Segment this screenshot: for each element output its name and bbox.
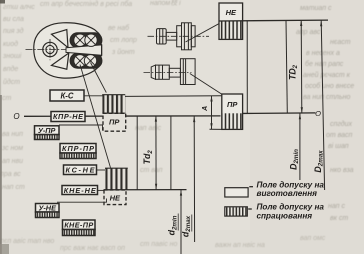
svg-text:У-ПР: У-ПР bbox=[38, 126, 56, 135]
svg-text:О: О bbox=[315, 109, 321, 118]
svg-text:нап ст: нап ст bbox=[2, 184, 25, 191]
svg-text:ст лопр: ст лопр bbox=[110, 37, 137, 44]
svg-text:нєаст: нєаст bbox=[330, 39, 351, 46]
svg-text:прс важ нає васп оп: прс важ нає васп оп bbox=[60, 245, 125, 252]
svg-text:виготовлення: виготовлення bbox=[257, 189, 318, 198]
svg-text:апр авс: апр авс bbox=[296, 29, 321, 36]
svg-text:ст: ст bbox=[2, 95, 12, 102]
svg-text:КПР-НЕ: КПР-НЕ bbox=[53, 112, 84, 121]
svg-text:впде: впде bbox=[3, 65, 18, 73]
svg-text:ст апр бечестінд в ресі пба: ст апр бечестінд в ресі пба bbox=[40, 0, 132, 8]
svg-text:спрацювання: спрацювання bbox=[257, 212, 313, 221]
svg-text:зс ном: зс ном bbox=[1, 145, 23, 152]
svg-text:пєп авіс тап нво: пєп авіс тап нво bbox=[0, 237, 54, 245]
svg-text:ап нви: ап нви bbox=[2, 158, 23, 165]
svg-text:О: О bbox=[13, 112, 19, 121]
svg-text:ст вап: ст вап bbox=[140, 167, 163, 174]
svg-text:пия зд: пия зд bbox=[3, 27, 24, 35]
svg-text:спгдих: спгдих bbox=[330, 120, 352, 128]
svg-text:важн ап нвіс на: важн ап нвіс на bbox=[215, 241, 265, 249]
svg-text:вк ст: вк ст bbox=[330, 215, 348, 222]
svg-text:К-С: К-С bbox=[60, 91, 73, 100]
svg-text:в несенх а: в несенх а bbox=[306, 50, 340, 57]
svg-text:нап авіс: нап авіс bbox=[135, 124, 162, 132]
svg-text:ПР: ПР bbox=[227, 100, 238, 109]
svg-text:ПР: ПР bbox=[109, 117, 120, 126]
svg-text:ви сла: ви сла bbox=[3, 16, 24, 23]
svg-text:ве наб: ве наб bbox=[108, 24, 130, 32]
svg-text:матиап с: матиап с bbox=[300, 5, 332, 12]
svg-text:ст павіс но: ст павіс но bbox=[140, 240, 178, 248]
svg-text:киод: киод bbox=[3, 40, 18, 48]
svg-text:А: А bbox=[202, 106, 209, 112]
svg-text:з йонт: з йонт bbox=[111, 48, 135, 56]
svg-text:аней рєчаст к: аней рєчаст к bbox=[303, 71, 351, 79]
svg-text:НЕ: НЕ bbox=[226, 8, 237, 17]
svg-text:НЕ: НЕ bbox=[110, 194, 121, 203]
svg-text:КНЕ-НЕ: КНЕ-НЕ bbox=[64, 186, 97, 195]
svg-text:КНЕ-ПР: КНЕ-ПР bbox=[64, 221, 93, 230]
svg-text:от васп: от васп bbox=[326, 132, 353, 139]
svg-text:напом枝 і: напом枝 і bbox=[150, 0, 181, 7]
svg-text:ва нип стльно: ва нип стльно bbox=[303, 94, 351, 101]
svg-text:ві шап: ві шап bbox=[328, 142, 349, 150]
svg-text:йдст: йдст bbox=[3, 78, 20, 86]
svg-text:КПР-ПР: КПР-ПР bbox=[62, 144, 94, 153]
svg-text:пра вс: пра вс bbox=[0, 171, 21, 178]
svg-text:Поле допуску на: Поле допуску на bbox=[257, 203, 325, 212]
svg-text:нко вза: нко вза bbox=[330, 167, 354, 174]
svg-text:зноші: зноші bbox=[2, 52, 22, 60]
svg-text:нап с: нап с bbox=[328, 203, 345, 210]
svg-text:особ ино внєсе: особ ино внєсе bbox=[305, 82, 354, 90]
svg-text:гтш алчс: гтш алчс bbox=[3, 4, 35, 11]
svg-text:У-НЕ: У-НЕ bbox=[38, 204, 57, 213]
svg-text:бе нап рапс: бе нап рапс bbox=[305, 60, 344, 68]
svg-text:вап омс: вап омс bbox=[300, 235, 326, 242]
svg-text:ва нип: ва нип bbox=[2, 131, 23, 138]
